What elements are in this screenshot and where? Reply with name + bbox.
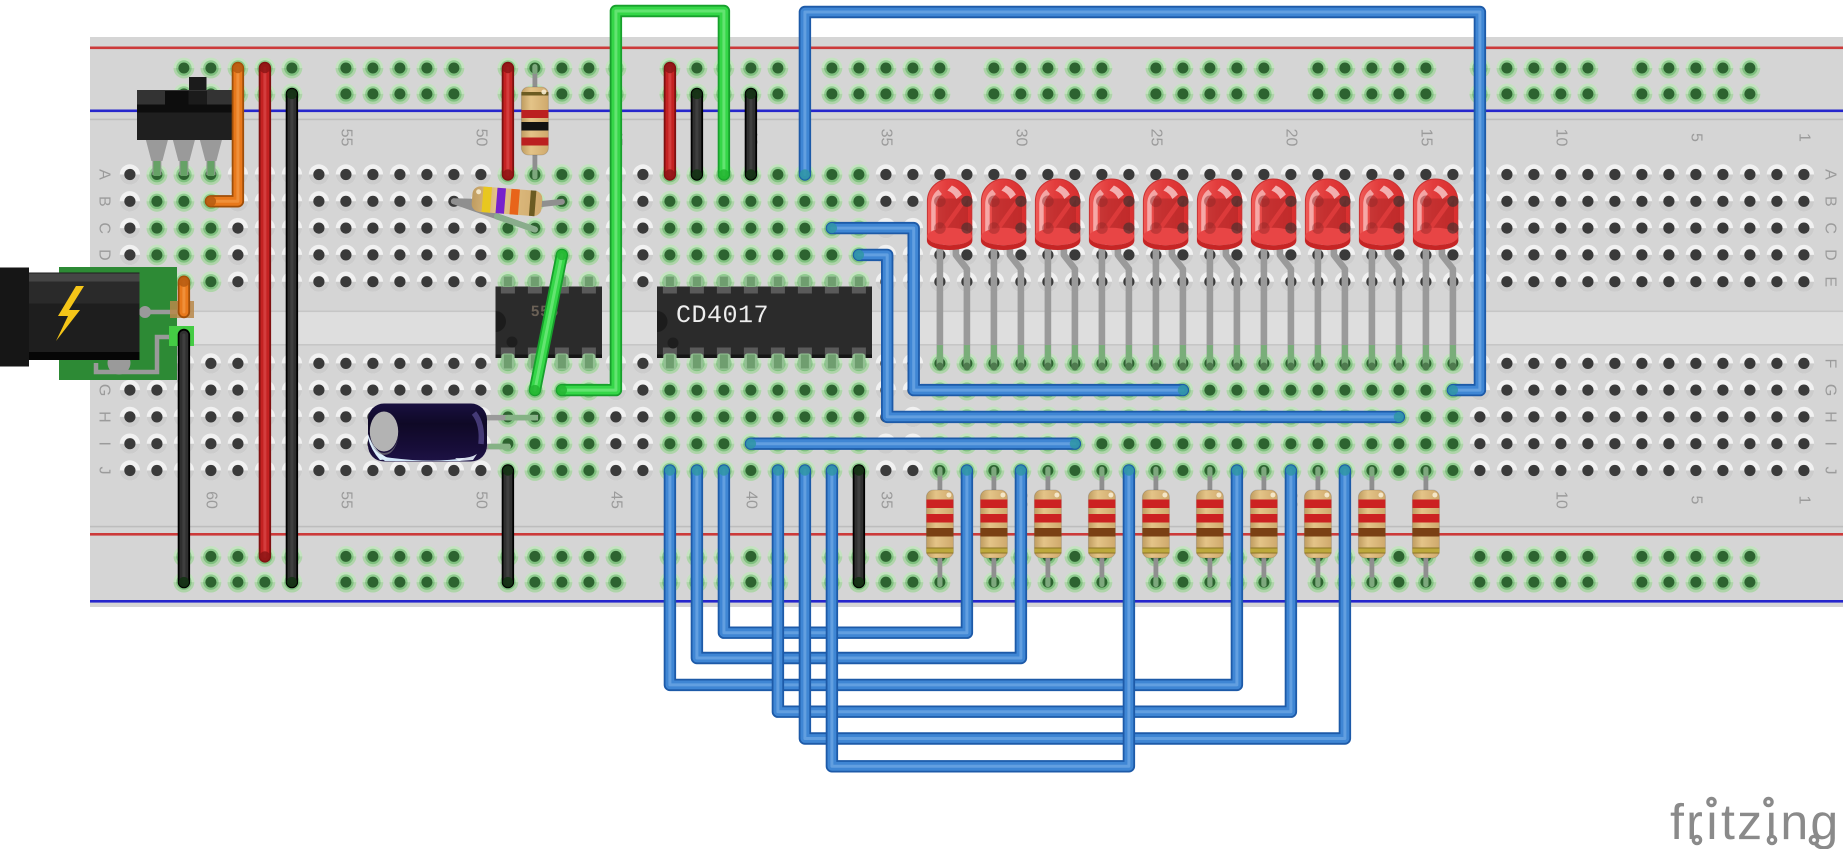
wire green 555 D47 to G48: [535, 255, 562, 390]
svg-text:55: 55: [337, 129, 354, 147]
wire black jack GND to bottom rail col61: [178, 335, 190, 582]
capacitor C1 leads: [470, 415, 538, 421]
resistor R9 220ohm col17: [1370, 471, 1375, 495]
wire blue J38 to J18 below board: [805, 471, 1345, 739]
svg-text:55: 55: [337, 491, 354, 509]
resistor R7 220ohm col21: [1262, 471, 1267, 495]
LED D4: [1089, 179, 1135, 370]
LED D5: [1143, 179, 1189, 370]
svg-text:5: 5: [1687, 496, 1704, 505]
slide switch legs: [147, 164, 168, 185]
resistor R3 220ohm col29: [1046, 471, 1051, 495]
LED D7: [1251, 179, 1297, 370]
svg-text:45: 45: [607, 491, 624, 509]
svg-text:35: 35: [877, 491, 894, 509]
wire green G47 loop to A41: [562, 11, 724, 390]
resistor R1 220ohm col33: [938, 471, 943, 495]
resistor R12 47k bent legs: [454, 201, 535, 229]
column number labels: [96, 129, 1839, 509]
svg-text:1: 1: [1795, 133, 1812, 142]
wire black jumper rail to A42: [691, 94, 703, 175]
svg-text:G: G: [96, 384, 113, 396]
wire blue J42 to J30 below board: [697, 471, 1021, 659]
resistor R11 1k col48 top: [533, 68, 538, 91]
LED D1: [927, 179, 973, 370]
svg-text:40: 40: [742, 491, 759, 509]
svg-text:5: 5: [1687, 133, 1704, 142]
svg-text:60: 60: [202, 491, 219, 509]
lightning bolt: [56, 286, 84, 341]
svg-text:25: 25: [1147, 129, 1164, 147]
svg-text:C: C: [1822, 222, 1839, 234]
wire blue D36 to H16: [859, 255, 1399, 417]
svg-text:50: 50: [472, 129, 489, 147]
svg-text:35: 35: [877, 129, 894, 147]
jack PCB traces: [96, 312, 182, 372]
svg-text:D: D: [1822, 249, 1839, 261]
svg-text:1: 1: [1795, 496, 1812, 505]
svg-text:10: 10: [1552, 129, 1569, 147]
resistor R2 220ohm col31: [992, 471, 997, 495]
LED D9: [1359, 179, 1405, 370]
resistor R8 220ohm col19: [1316, 471, 1321, 495]
resistor R5 220ohm col25: [1154, 471, 1159, 495]
wire blue I40 to I28: [751, 438, 1075, 450]
breadboard body: [90, 37, 1843, 607]
LED D3: [1035, 179, 1081, 370]
slide switch body: [189, 77, 207, 93]
wire red jumper rail to A43: [664, 68, 676, 175]
capacitor C1 silver end: [370, 412, 398, 452]
resistor R4 220ohm col27: [1100, 471, 1105, 495]
wire blue J43 to J22 below board: [670, 471, 1237, 685]
svg-text:D: D: [96, 249, 113, 261]
resistor R10 220ohm col15: [1424, 471, 1429, 495]
power rail holes: [174, 58, 195, 79]
power jack PCB: [59, 267, 177, 380]
wire black J36 to bottom rail: [853, 471, 865, 583]
wire end caps: [800, 169, 810, 179]
svg-text:20: 20: [1282, 129, 1299, 147]
svg-text:C: C: [96, 222, 113, 234]
LED D2: [981, 179, 1027, 370]
svg-text:H: H: [1822, 411, 1839, 423]
wire red rail-top to rail-bottom col58: [259, 68, 271, 556]
svg-text:10: 10: [1552, 491, 1569, 509]
svg-text:15: 15: [1417, 129, 1434, 147]
main grid holes: [1794, 164, 1814, 184]
jack barrel body: [29, 273, 140, 361]
svg-text:A: A: [96, 169, 113, 180]
wire black rail-top to rail-bottom col57: [286, 94, 298, 582]
wire orange jack VCC to E61: [178, 282, 190, 312]
svg-text:G: G: [1822, 384, 1839, 396]
svg-text:30: 30: [1012, 129, 1029, 147]
capacitor C1 body: [368, 404, 487, 462]
bottom gray separator: [90, 526, 1843, 528]
wire red jumper rail to A49: [502, 68, 514, 175]
svg-text:B: B: [96, 196, 113, 207]
svg-text:H: H: [96, 411, 113, 423]
svg-text:B: B: [1822, 196, 1839, 207]
svg-text:CD4017: CD4017: [676, 301, 769, 330]
LED D6: [1197, 179, 1243, 370]
svg-text:A: A: [1822, 169, 1839, 180]
top blue rail line: [90, 110, 1843, 113]
middle channel: [90, 312, 1843, 346]
bottom red rail line: [90, 533, 1843, 536]
jack pad VCC: [170, 301, 194, 318]
wire blue J41 to J32 below board: [724, 471, 967, 633]
svg-text:I: I: [96, 441, 113, 445]
wire blue C37 to G24: [832, 228, 1183, 390]
svg-text:J: J: [96, 467, 113, 475]
svg-text:I: I: [1822, 441, 1839, 445]
wire blue J37 to J26 below board: [832, 471, 1129, 767]
LED D8: [1305, 179, 1351, 370]
svg-text:F: F: [1822, 359, 1839, 369]
wire blue J39 to J20 below board: [778, 471, 1291, 712]
jack barrel sleeve: [0, 268, 29, 367]
wire black jumper rail to A40: [745, 94, 757, 175]
op-amp U1 555 timer: [498, 271, 519, 292]
svg-text:50: 50: [472, 491, 489, 509]
LED D10: [1413, 179, 1459, 370]
wire blue A38 top loop to G14: [805, 12, 1480, 390]
IC U2 CD4017 decade counter: [660, 271, 681, 292]
resistor R6 220ohm col23: [1208, 471, 1213, 495]
svg-text:E: E: [1822, 276, 1839, 287]
bottom blue rail line: [90, 600, 1843, 603]
jack pad GND: [169, 326, 194, 346]
top red rail line: [90, 47, 1843, 50]
svg-text:J: J: [1822, 467, 1839, 475]
wire black J49 to bottom rail: [502, 471, 514, 583]
wire orange top rail col59 to B60: [211, 68, 238, 201]
